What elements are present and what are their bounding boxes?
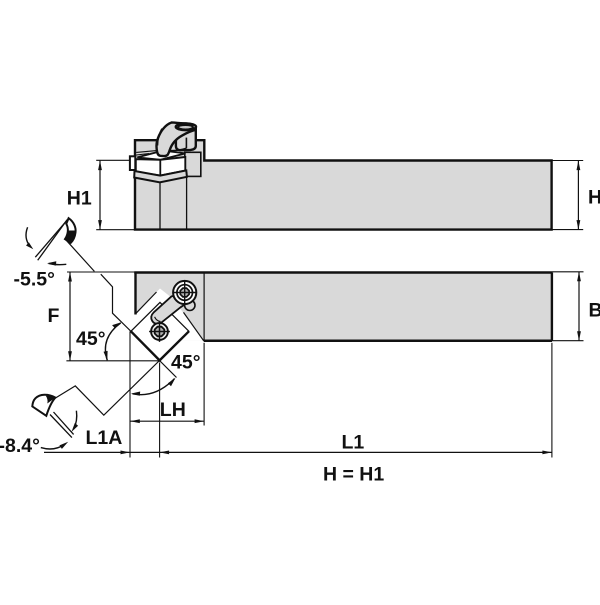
clamp foot bottom edge [170, 148, 186, 150]
clamp bore circle [173, 281, 196, 304]
F dimension line [69, 272, 71, 361]
insert side-view left tab [130, 156, 135, 170]
B extension line top [552, 271, 584, 273]
H1 extension line bottom [96, 229, 135, 231]
LH arrow right [195, 419, 205, 423]
H extension line top [552, 160, 584, 162]
H1 arrow bottom [98, 220, 102, 230]
L1A arrow pointing right [121, 451, 131, 455]
45 arc 1 top arrow [112, 322, 121, 328]
clamp cylinder bore ellipse [178, 125, 193, 129]
H extension line bottom [552, 229, 584, 231]
shank bottom edge [204, 340, 552, 343]
head left edge [134, 273, 136, 315]
H dimension line [577, 161, 579, 230]
45 arc 1 [105, 323, 120, 361]
LH arrow left [130, 419, 140, 423]
pocket back thin lines [136, 150, 158, 152]
chamfer edge [184, 312, 204, 340]
L1A/L1 arrow pointing left [160, 451, 170, 455]
ghost zigzag polyline [51, 361, 160, 416]
shank right edge [551, 273, 553, 341]
LH right extension line [203, 343, 205, 426]
svg-text:L1A: L1A [86, 427, 123, 449]
svg-text:L1: L1 [342, 432, 365, 454]
icon bottom arc arrow [49, 263, 67, 264]
svg-text:45°: 45° [171, 351, 201, 373]
icon2 hatch line A [50, 415, 72, 438]
45 arc 2 [133, 379, 175, 395]
insert diamond [131, 302, 189, 360]
45 arc 1 bottom arrow [104, 351, 108, 361]
svg-text:45°: 45° [76, 328, 106, 350]
front view shank body [136, 273, 553, 341]
leader line from icon to front view [66, 240, 94, 271]
svg-text:H1: H1 [67, 188, 92, 210]
extended edge segment below tip [160, 361, 177, 378]
insert screw (small) octagon [155, 327, 165, 337]
pocket back wall (side view) [185, 152, 201, 176]
clamp arm (front view) [151, 293, 188, 324]
H1 arrow top [98, 161, 102, 171]
icon2 wedge solid tip [46, 396, 56, 404]
B arrow bottom [577, 331, 581, 341]
svg-text:F: F [48, 305, 60, 327]
H arrow bottom [577, 220, 581, 230]
L1 right extension line [551, 343, 553, 458]
ghost outline upper leader part2 [101, 274, 131, 331]
clamp inner vertical edge [185, 138, 187, 149]
H arrow top [577, 161, 581, 171]
45 arc 2 right arrow [168, 378, 176, 387]
F arrow bottom [68, 351, 72, 361]
icon2 leader arc arrow [41, 445, 65, 449]
svg-text:H: H [588, 187, 600, 209]
clamp arm nose inner line [155, 317, 161, 322]
icon fin solid wedge [65, 231, 75, 243]
clamp screw cylinder (side view) [176, 127, 196, 151]
head/shank boundary line [203, 273, 205, 341]
clamp nose bump circle [185, 300, 195, 310]
insert screw (small) outer circle [151, 323, 168, 340]
insert pocket cutout [136, 289, 204, 341]
icon insert line B [38, 220, 67, 261]
L1 arrow pointing right [542, 451, 552, 455]
insert diamond thick cutting edges [131, 331, 189, 360]
insert top face (side view) [137, 151, 185, 160]
H1 extension line top [96, 159, 130, 161]
shim band below insert [134, 170, 187, 182]
head front face edge lines [159, 182, 161, 228]
insert front corner edge [159, 160, 161, 176]
toolholder body (side view shank + head) [135, 140, 552, 229]
combined dimension line [44, 451, 552, 453]
icon insert line A [35, 218, 68, 257]
svg-text:H = H1: H = H1 [323, 464, 384, 486]
icon2 wedge [32, 395, 55, 416]
clamp gooseneck (side view) [156, 122, 195, 156]
svg-text:-5.5°: -5.5° [14, 269, 55, 291]
insert screw (big) octagon [180, 288, 189, 297]
shank top edge [134, 271, 552, 274]
insert screw (big) outer circle [177, 285, 193, 301]
insert front faces (side view white band) [136, 157, 186, 176]
ghost vertical extension line [129, 331, 131, 457]
insert screw (big) crosshair [173, 292, 196, 294]
icon fin outline [65, 218, 76, 243]
icon2 small arc arrow [74, 411, 77, 430]
45 arc 2 left arrow [131, 392, 140, 396]
pocket upper-left edge [136, 292, 157, 314]
B dimension line [578, 272, 580, 341]
icon left arc arrow [26, 227, 30, 246]
H1 dimension line [99, 161, 101, 230]
B arrow top [577, 272, 581, 282]
F extension line top [67, 271, 136, 273]
insert screw (small) crosshair [149, 331, 170, 333]
insert tip extension line [159, 363, 161, 458]
svg-text:LH: LH [160, 399, 186, 421]
icon2 hatch line B [54, 412, 74, 434]
B extension line bottom [552, 340, 584, 342]
F arrow top [68, 272, 72, 282]
svg-text:B: B [589, 300, 600, 322]
LH dimension line [130, 420, 204, 422]
svg-text:-8.4°: -8.4° [0, 435, 40, 457]
horizontal reference line through tip [66, 360, 159, 362]
clamp cylinder top ellipse [176, 124, 196, 131]
gooseneck left inner line [158, 129, 162, 146]
